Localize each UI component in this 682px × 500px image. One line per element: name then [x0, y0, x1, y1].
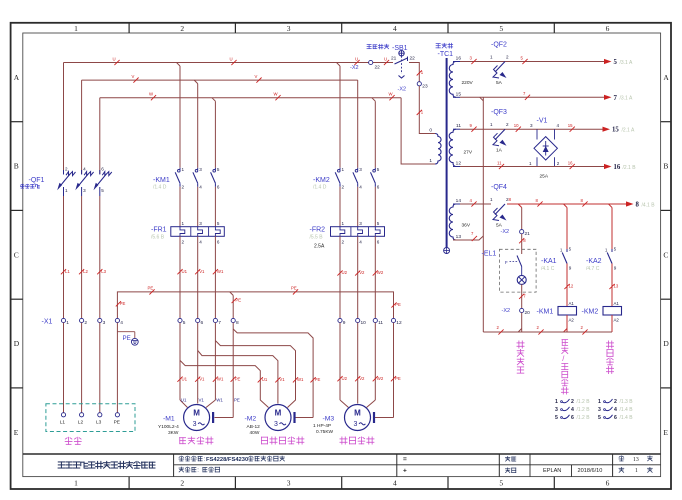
- svg-text:3: 3: [598, 407, 601, 413]
- transformer TC1 tag: [436, 44, 441, 48]
- svg-text:/5.5 B: /5.5 B: [310, 235, 324, 241]
- svg-text:C: C: [663, 250, 668, 259]
- svg-text:2: 2: [182, 185, 185, 190]
- title page description: [179, 467, 184, 472]
- svg-text:1: 1: [490, 197, 493, 202]
- svg-text:PE: PE: [395, 302, 401, 307]
- svg-text:2: 2: [182, 240, 185, 245]
- terminal X1:11: [373, 318, 377, 322]
- svg-text:36V: 36V: [462, 223, 471, 229]
- svg-text:6: 6: [606, 479, 610, 488]
- wire V bus label ticks: [133, 78, 138, 83]
- svg-text:PE: PE: [123, 335, 131, 342]
- node row8 branch -KA2: [609, 204, 613, 208]
- svg-text:U1: U1: [262, 377, 268, 382]
- arrow row 16: [604, 164, 612, 169]
- svg-text:/3.1 A: /3.1 A: [620, 60, 633, 66]
- node U bus branch to KM1: [177, 63, 181, 67]
- svg-text:0.75KW: 0.75KW: [316, 429, 334, 435]
- svg-text:C: C: [14, 250, 19, 259]
- svg-text:2: 2: [84, 320, 87, 326]
- wire V bus drop to KM2: [357, 80, 359, 168]
- svg-text:PE: PE: [315, 377, 321, 382]
- svg-text:-FR1: -FR1: [151, 227, 167, 234]
- wire staircase X1:6 V to M2: [198, 351, 278, 404]
- wire labels L1 L2 L3: [61, 269, 66, 274]
- source terminals: [61, 413, 65, 417]
- svg-text:B: B: [14, 162, 19, 171]
- svg-text:7: 7: [218, 320, 221, 326]
- svg-text:4: 4: [393, 479, 397, 488]
- svg-text:-M1: -M1: [163, 416, 175, 423]
- title block: [23, 453, 661, 455]
- svg-text:AB-12: AB-12: [247, 424, 261, 430]
- svg-text:M: M: [275, 409, 282, 418]
- svg-text:14: 14: [456, 198, 462, 204]
- terminal X1:8: [231, 318, 235, 322]
- svg-text:6: 6: [606, 24, 610, 33]
- svg-text:9: 9: [614, 266, 617, 271]
- svg-text:1: 1: [490, 122, 493, 127]
- svg-text:6: 6: [201, 320, 204, 326]
- svg-text:/4.1 C: /4.1 C: [541, 266, 555, 272]
- wire row 15: [460, 128, 531, 130]
- svg-text:D: D: [663, 339, 669, 348]
- svg-text:2: 2: [342, 185, 345, 190]
- terminal X1:2: [80, 318, 84, 322]
- node row8 branch lamp: [518, 204, 522, 208]
- svg-text:/1.3 B: /1.3 B: [620, 399, 634, 405]
- svg-text:/1.2 B: /1.2 B: [577, 407, 591, 413]
- svg-text:FS4228/FS4230: FS4228/FS4230: [206, 457, 248, 463]
- terminal X1:4: [115, 318, 119, 322]
- svg-text:W2: W2: [377, 376, 384, 381]
- terminal X1:5: [178, 318, 182, 322]
- wire -KA1 to coil: [566, 264, 568, 307]
- svg-text:/2.1 A: /2.1 A: [622, 128, 635, 134]
- svg-text:-V1: -V1: [537, 118, 548, 125]
- svg-text:1: 1: [182, 221, 185, 226]
- wire 13 to neutral: [453, 236, 483, 240]
- svg-text:1: 1: [555, 399, 558, 405]
- svg-text:/3.1 A: /3.1 A: [620, 96, 633, 102]
- svg-text:15: 15: [456, 91, 462, 97]
- svg-text:L1: L1: [65, 269, 70, 274]
- svg-text:M: M: [193, 409, 200, 418]
- svg-text:/1.4 D: /1.4 D: [153, 185, 167, 191]
- wire control return: [483, 331, 612, 333]
- svg-text:-EL1: -EL1: [482, 251, 497, 258]
- svg-text:3: 3: [354, 421, 358, 428]
- svg-text:3: 3: [359, 167, 362, 172]
- svg-text:1: 1: [429, 158, 432, 164]
- label M1 name: [179, 438, 185, 444]
- svg-text:-KM2: -KM2: [313, 177, 330, 184]
- wire EL1 to X2:20: [521, 284, 523, 308]
- svg-text:/5.6 B: /5.6 B: [151, 235, 165, 241]
- svg-text:V1: V1: [199, 269, 205, 274]
- svg-text:5: 5: [101, 188, 104, 193]
- svg-text:L3: L3: [96, 420, 102, 426]
- svg-text:-X1: -X1: [42, 319, 53, 326]
- transformer TC1 core ground: [444, 248, 450, 254]
- svg-text:5: 5: [598, 415, 601, 421]
- svg-text:10: 10: [361, 320, 367, 326]
- label M3 name: [340, 437, 347, 444]
- svg-text:20: 20: [525, 310, 531, 316]
- wire 1 down to transformer primary 0: [419, 86, 435, 134]
- wire QF1 to X1 terminals: [63, 196, 65, 318]
- svg-text:PE: PE: [234, 398, 240, 403]
- svg-text:EPLAN: EPLAN: [543, 468, 561, 474]
- svg-text:U2: U2: [342, 270, 348, 275]
- svg-text:2018/6/10: 2018/6/10: [578, 468, 603, 474]
- svg-text:2: 2: [571, 399, 574, 405]
- svg-text:V2: V2: [359, 376, 365, 381]
- lamp EL1 bulb: [517, 275, 526, 284]
- svg-text:L3: L3: [101, 269, 106, 274]
- svg-text:0: 0: [429, 128, 432, 134]
- transformer TC1 core: [446, 58, 448, 248]
- wire KM2 to FR2: [339, 187, 341, 227]
- svg-text:PE: PE: [120, 301, 126, 306]
- svg-text:=: =: [403, 456, 407, 463]
- wire row 7: [460, 96, 604, 98]
- svg-text:2: 2: [180, 24, 184, 33]
- relay contact -KA1: [566, 249, 568, 252]
- svg-text:/1.2 B: /1.2 B: [577, 415, 591, 421]
- wire labels M1 group: [177, 377, 182, 382]
- svg-text:1 HP-4P: 1 HP-4P: [313, 423, 331, 429]
- svg-text:4: 4: [83, 167, 86, 172]
- svg-text:2: 2: [65, 167, 68, 172]
- svg-text:-X2: -X2: [398, 87, 407, 93]
- wire row 5: [460, 61, 604, 63]
- title company name: [58, 462, 65, 468]
- svg-text:V1: V1: [199, 376, 205, 381]
- svg-text:/1.4 B: /1.4 B: [620, 407, 634, 413]
- wire KM1 to FR1: [179, 187, 181, 227]
- svg-text:1: 1: [66, 320, 69, 326]
- wire staircase X1:5 U to M2: [180, 360, 269, 407]
- svg-text:220V: 220V: [462, 80, 474, 86]
- svg-text:-KA1: -KA1: [541, 258, 557, 265]
- wire X1:9-12 down to M3: [339, 323, 341, 400]
- svg-text:5: 5: [377, 221, 380, 226]
- svg-text:6: 6: [614, 415, 617, 421]
- svg-text:2: 2: [342, 240, 345, 245]
- svg-text:M: M: [354, 409, 361, 418]
- svg-text:2: 2: [180, 479, 184, 488]
- svg-text:1: 1: [74, 24, 78, 33]
- svg-text:3: 3: [103, 320, 106, 326]
- svg-text:W1: W1: [217, 376, 224, 381]
- label M2 name: [261, 437, 267, 444]
- svg-text:-X2: -X2: [350, 65, 359, 71]
- thermal overload relay FR2: [331, 227, 385, 237]
- svg-text:10: 10: [514, 123, 519, 128]
- svg-text:A: A: [663, 73, 669, 82]
- svg-text:6: 6: [217, 240, 220, 245]
- wire X2:21 to EL1: [521, 234, 523, 254]
- svg-text:5: 5: [499, 24, 503, 33]
- transformer TC1 secondary 220V: [449, 62, 456, 98]
- svg-text:U1: U1: [182, 269, 188, 274]
- svg-text:/1.4 B: /1.4 B: [620, 415, 634, 421]
- svg-text:V1: V1: [199, 398, 205, 403]
- svg-text:-KM2: -KM2: [582, 309, 599, 316]
- svg-text:5: 5: [377, 167, 380, 172]
- motor M2: [265, 405, 291, 431]
- svg-text:-M2: -M2: [245, 416, 257, 423]
- svg-text:1: 1: [74, 479, 78, 488]
- node V bus branch to KM1: [194, 80, 198, 84]
- wire coil -KM1 to return: [566, 315, 568, 332]
- svg-text:W1: W1: [217, 269, 224, 274]
- node W bus branch to KM1: [212, 98, 216, 102]
- svg-text:E: E: [663, 428, 668, 437]
- svg-text:U: U: [355, 56, 358, 61]
- svg-text:5: 5: [499, 479, 503, 488]
- terminal X2:20: [520, 308, 524, 312]
- svg-text:3: 3: [199, 167, 202, 172]
- contactor coil -KM2: [603, 307, 622, 316]
- motor M1: [184, 405, 210, 431]
- svg-text:3KW: 3KW: [168, 430, 179, 436]
- svg-text:/4.7 C: /4.7 C: [586, 266, 600, 272]
- svg-text:1: 1: [342, 167, 345, 172]
- wire row 8 after QF4: [507, 203, 626, 205]
- terminal X2:21: [520, 230, 524, 234]
- svg-text:13: 13: [633, 457, 639, 463]
- svg-text:U: U: [384, 56, 387, 61]
- svg-text:11: 11: [456, 123, 461, 129]
- svg-text:2: 2: [557, 161, 560, 166]
- svg-text:3: 3: [287, 24, 291, 33]
- arrow row 7: [604, 95, 612, 100]
- svg-text:13: 13: [456, 234, 462, 240]
- terminal X1:10: [356, 318, 360, 322]
- transformer TC1 primary winding: [435, 134, 441, 165]
- svg-text:4: 4: [199, 185, 202, 190]
- label oil pump motor: [606, 341, 613, 348]
- svg-text:1: 1: [342, 221, 345, 226]
- svg-text:12: 12: [569, 284, 574, 289]
- svg-text:16: 16: [456, 56, 462, 62]
- svg-text:PE: PE: [395, 376, 401, 381]
- lamp EL1 switch: [517, 256, 522, 267]
- arrow row 5: [604, 59, 612, 64]
- svg-text:4: 4: [557, 123, 560, 128]
- wire -KA2 to coil: [611, 264, 613, 307]
- svg-text:W1: W1: [297, 377, 304, 382]
- svg-text:1: 1: [65, 188, 68, 193]
- terminal X1:6: [196, 318, 200, 322]
- svg-text:1: 1: [635, 468, 638, 474]
- svg-text:/2.1 B: /2.1 B: [623, 165, 637, 171]
- wire W bus label ticks: [151, 95, 156, 100]
- arrow row 15: [603, 127, 611, 132]
- svg-text:16: 16: [568, 160, 573, 165]
- svg-text:D: D: [14, 339, 20, 348]
- wire W to transformer primary 1: [401, 98, 435, 164]
- contactor KM2 main contacts: [335, 168, 375, 187]
- svg-text:5: 5: [217, 221, 220, 226]
- title drawing no cell: [505, 456, 510, 461]
- svg-text:F: F: [505, 260, 508, 265]
- wire PE bus: [117, 292, 393, 318]
- svg-text:V2: V2: [359, 270, 365, 275]
- svg-text:W1: W1: [216, 398, 223, 403]
- svg-text:-TC1: -TC1: [438, 51, 454, 58]
- svg-text:PE: PE: [235, 376, 241, 381]
- svg-text:V1: V1: [279, 377, 285, 382]
- svg-text:21: 21: [525, 231, 531, 237]
- svg-text:6: 6: [571, 415, 574, 421]
- svg-text:9: 9: [343, 320, 346, 326]
- terminal X2:23: [417, 82, 421, 86]
- wire labels M2 group: [258, 377, 263, 382]
- svg-text:16: 16: [614, 164, 621, 171]
- wire U bus label ticks: [114, 60, 119, 65]
- title page count: [619, 456, 624, 461]
- svg-text:L2: L2: [83, 269, 88, 274]
- transformer TC1 secondary 27V: [449, 129, 456, 166]
- svg-text:+: +: [403, 468, 407, 475]
- svg-text:V: V: [255, 74, 258, 79]
- wire X2:20 to return: [521, 313, 523, 332]
- wire labels M3 group: [337, 376, 342, 381]
- svg-text:8: 8: [636, 202, 640, 209]
- svg-text:4: 4: [120, 320, 123, 326]
- svg-text:-QF1: -QF1: [29, 177, 45, 184]
- svg-text:1: 1: [490, 55, 493, 60]
- svg-text:3: 3: [530, 123, 533, 128]
- wire W bus: [100, 97, 401, 99]
- wire U from SB1 down to X2:23: [409, 63, 419, 82]
- terminal X1:12: [391, 318, 395, 322]
- svg-text:-KA2: -KA2: [586, 258, 602, 265]
- svg-text:4: 4: [614, 407, 617, 413]
- wire row 8: [460, 203, 491, 205]
- svg-text:PE: PE: [291, 286, 297, 291]
- svg-text:V: V: [132, 74, 135, 79]
- wire FR1 to X1 5-7: [179, 236, 181, 318]
- terminal X1:9: [338, 318, 342, 322]
- svg-text:5: 5: [183, 320, 186, 326]
- svg-text:U1: U1: [181, 398, 187, 403]
- terminal X1:1: [61, 318, 65, 322]
- svg-text:22: 22: [410, 56, 416, 62]
- svg-text:/1.2 B: /1.2 B: [577, 399, 591, 405]
- svg-text:3: 3: [555, 407, 558, 413]
- arrow row 8: [626, 201, 634, 206]
- svg-text:-SB1: -SB1: [392, 45, 408, 52]
- svg-text:3: 3: [83, 188, 86, 193]
- wire labels U2 V2 W2: [337, 270, 342, 275]
- svg-text:1: 1: [529, 161, 532, 166]
- svg-text:-QF3: -QF3: [491, 109, 507, 116]
- svg-text:-QF2: -QF2: [491, 42, 507, 49]
- wire neutral 7 drop: [482, 97, 484, 332]
- wire V bus: [82, 79, 358, 81]
- svg-text:A2: A2: [614, 318, 620, 323]
- wire labels U1 V1 W1: [177, 269, 182, 274]
- terminal X1:7: [213, 318, 217, 322]
- svg-text:3: 3: [199, 221, 202, 226]
- svg-text:B: B: [663, 162, 668, 171]
- wire staircase X1:8 PE to M2: [233, 329, 313, 418]
- svg-text:A: A: [14, 73, 20, 82]
- svg-text:27V: 27V: [464, 150, 473, 156]
- rectifier V1: [534, 129, 557, 166]
- svg-text:23: 23: [422, 84, 428, 90]
- svg-text:6: 6: [377, 185, 380, 190]
- svg-text:-X2: -X2: [502, 308, 511, 314]
- label saw/water pump motor: [562, 340, 568, 346]
- wire staircase X1:7 W to M2: [215, 341, 295, 408]
- terminal X1:3: [98, 318, 102, 322]
- svg-text:5: 5: [217, 167, 220, 172]
- svg-text:6: 6: [101, 167, 104, 172]
- svg-text:21: 21: [391, 56, 397, 62]
- svg-text:7: 7: [614, 95, 618, 102]
- node return junction jogs: [518, 329, 522, 333]
- svg-text:U: U: [230, 56, 233, 61]
- svg-text:PE: PE: [114, 420, 120, 426]
- label power source: [65, 437, 72, 444]
- svg-text:12: 12: [456, 161, 462, 167]
- svg-text:5: 5: [614, 59, 618, 66]
- svg-text:U1: U1: [182, 376, 188, 381]
- ground PE symbol: [117, 331, 134, 333]
- svg-text:A1: A1: [614, 301, 620, 306]
- node PE branch to X1:8: [230, 292, 234, 296]
- wire X1:5-8 down to M1: [179, 323, 181, 400]
- svg-text:2: 2: [506, 55, 509, 60]
- svg-text:/4.1 B: /4.1 B: [642, 202, 656, 208]
- svg-text:A1: A1: [569, 301, 575, 306]
- contactor coil -KM1: [558, 307, 577, 316]
- svg-text:3: 3: [287, 479, 291, 488]
- svg-text:8: 8: [509, 197, 512, 202]
- svg-text:11: 11: [497, 160, 502, 165]
- svg-text:E: E: [14, 428, 19, 437]
- power source dashed box: [46, 404, 135, 432]
- relay contact -KA2: [611, 249, 613, 252]
- svg-text:U: U: [113, 56, 116, 61]
- svg-text:2: 2: [506, 122, 509, 127]
- svg-text:-KM1: -KM1: [537, 309, 554, 316]
- node W bus branch to KM2: [372, 98, 376, 102]
- svg-text:8: 8: [236, 320, 239, 326]
- wire FR2 to X1 9-11: [339, 236, 341, 318]
- breaker QF1: [57, 63, 112, 197]
- svg-text:4: 4: [571, 407, 574, 413]
- node U bus branch to KM2: [337, 63, 341, 67]
- svg-text:-QF4: -QF4: [491, 184, 507, 191]
- wire U bus: [64, 62, 369, 64]
- wire PE bus ticks: [149, 289, 154, 294]
- svg-text:9: 9: [569, 266, 572, 271]
- svg-text:12: 12: [396, 320, 402, 326]
- wire coil -KM2 to return: [611, 315, 613, 332]
- svg-text:3: 3: [359, 221, 362, 226]
- svg-text:2: 2: [614, 399, 617, 405]
- transformer TC1 secondary 36V: [449, 204, 456, 240]
- svg-text:15: 15: [568, 123, 573, 128]
- svg-text:3: 3: [193, 421, 197, 428]
